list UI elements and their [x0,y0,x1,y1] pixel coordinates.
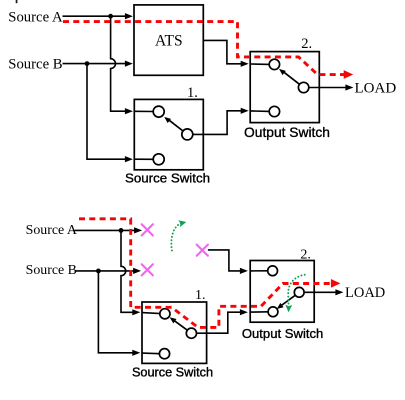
svg-text:Source A: Source A [26,223,77,238]
contact circle bottom-left [268,307,278,317]
svg-text:ATS: ATS [155,33,183,50]
wire inside box to top contact [250,270,268,272]
ATS box U-top [134,5,203,75]
svg-text:2.: 2. [300,247,311,262]
contact circle common right [294,287,304,297]
wire Source A to ATS pin [63,15,127,17]
svg-text:2.: 2. [301,36,312,52]
switch blade with arrow to top contact [173,320,188,331]
wire inside box to bottom contact [134,158,153,160]
wire inside box to bottom contact [250,311,268,313]
red power path B through source switch to LOAD (bottom) [79,219,331,328]
cut mark X at removed ATS output [197,245,208,256]
red power path A through ATS to LOAD (top) [63,22,344,75]
wire inside box to bottom contact [250,110,269,113]
svg-text:1.: 1. [187,85,198,101]
cut mark X at Source A [142,224,153,235]
contact circle top-left [268,266,278,276]
junction node on Source A wire [108,14,113,19]
wire from cut ATS output to output switch top input [208,250,242,271]
contact circle top-left [269,59,279,69]
switch blade with arrow to bottom contact [280,295,296,306]
svg-text:Source A: Source A [8,9,63,25]
contact circle common right [186,328,196,338]
source switch box (top) [134,99,203,169]
wire Source B to removed ATS (cut) with hop [75,270,135,272]
junction node on Source A wire [119,228,124,233]
contact circle top-left [153,106,164,117]
svg-text:Source Switch: Source Switch [125,170,210,185]
wire Source A down to source switch top input [111,16,126,111]
wire inside box to top contact [250,63,269,65]
svg-text:Output Switch: Output Switch [242,326,324,341]
svg-text:LOAD: LOAD [355,80,397,96]
wire source switch output to output switch bottom input [193,111,242,135]
junction node on Source B wire [85,61,90,66]
contact circle bottom-left [159,349,169,359]
switch blade with arrow to top contact [282,71,299,84]
red path arrowhead [344,70,354,79]
wire output switch to LOAD [309,87,347,89]
wire Source B to ATS pin with hop over vertical [63,63,127,65]
svg-text:Source B: Source B [8,56,62,72]
svg-text:1.: 1. [195,288,206,303]
svg-text:Output Switch: Output Switch [244,125,330,140]
wire inside box to top contact [142,313,160,314]
svg-text:LOAD: LOAD [345,285,385,301]
junction node on Source B wire [96,269,101,274]
contact circle common right [298,82,308,92]
wire output switch to LOAD (bottom) [304,291,337,293]
source switch box (bottom) [142,302,207,363]
cut mark X at Source B [142,264,153,275]
wire ATS output to output switch top input [204,40,243,63]
wire Source B down to source switch bottom input [87,63,126,159]
green switching motion arrow (output switch 2 to bottom) [288,275,305,306]
contact circle bottom-left [153,154,164,165]
wire inside box to bottom contact [142,352,160,355]
contact circle bottom-left [269,106,279,116]
contact circle common right [182,129,193,140]
svg-text:Source B: Source B [26,263,77,278]
stray text fragment top-left [16,0,18,3]
wire source switch output to output switch bottom input (bottom) [196,312,241,333]
switch blade with arrow to top contact [168,119,183,131]
wire Source A to removed ATS (cut) [75,229,137,231]
wire Source B down to source switch bottom input (bottom) [98,271,134,353]
contact circle top-left [160,309,170,319]
green move arrow (cables to source switch) [171,223,181,251]
output switch box (top) [250,52,319,123]
svg-text:Source Switch: Source Switch [132,365,213,379]
output switch box (bottom) [250,261,314,323]
wire inside box to top contact [134,110,153,112]
red path arrowhead [331,279,341,288]
wire Source A down to source switch top input (bottom) [121,230,134,312]
